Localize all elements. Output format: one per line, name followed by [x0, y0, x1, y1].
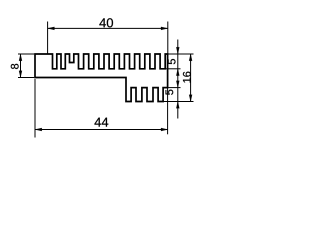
dim 5 top: arrow down to y54 [176, 47, 179, 54]
dim 5 bottom: label (rotated) [166, 90, 174, 95]
heatsink extrusion profile outline [35, 54, 168, 102]
dim 40: left arrow [48, 27, 55, 30]
dim 44: extension line left (below profile) [34, 79, 36, 138]
dim 16: top arrow [189, 54, 192, 61]
dim 5/16 shared extension line at profile bottom [163, 101, 193, 103]
dim 16: bottom arrow [189, 95, 192, 102]
dim 44: right arrow [161, 128, 168, 131]
dim 40: label [99, 18, 113, 27]
dim 8: top arrow [19, 54, 22, 61]
dim 5 bottom: extension line at bottom slot top [168, 87, 181, 89]
dim 8: dimension line [20, 54, 22, 78]
dim 5/16 shared extension line at profile top [168, 53, 194, 55]
dim 16: dimension line [190, 54, 192, 102]
dim 16: label (rotated) [183, 72, 191, 83]
dim 8: extension line top [18, 53, 34, 55]
dim 5 top: arrow up to y68.8 [176, 69, 179, 76]
dim 5 top: extension line at top slot bottom [165, 68, 180, 70]
dim 5 shared vertical line (both 5 dims, arrows outside) [177, 40, 179, 119]
dim 8: bottom arrow [19, 71, 22, 78]
dim 44: label [94, 118, 108, 127]
dim 5 top: label (rotated) [168, 59, 176, 64]
dim 44: left arrow [35, 128, 42, 131]
dim 40: dimension line [48, 27, 168, 29]
dim 8: label (rotated) [11, 64, 19, 69]
dim 5 bottom: arrow up to y102.3 [176, 102, 179, 109]
dim 40: extension line left [47, 22, 49, 55]
dim 44: dimension line [35, 129, 168, 131]
dim 40: right arrow [161, 27, 168, 30]
dim 40: extension line right (above profile) [167, 22, 169, 54]
dim 5 bottom: arrow down to y85.6 [176, 81, 179, 88]
dim 8: extension line bottom [18, 77, 34, 79]
dim 44: extension line right (below profile) [167, 89, 169, 135]
